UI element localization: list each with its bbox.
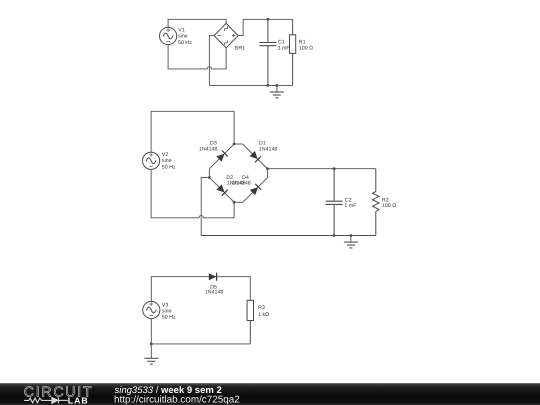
junction bottom vertex (233, 201, 236, 204)
label D1 (259, 141, 278, 153)
wire stub D4 to right vertex (267, 169, 269, 178)
diode D1 (240, 141, 271, 172)
svg-text:1N4148: 1N4148 (205, 290, 224, 296)
svg-text:50 Hz: 50 Hz (178, 40, 192, 46)
diode D2 (206, 174, 237, 205)
footer bar (0, 383, 540, 405)
svg-text:1 mF: 1 mF (278, 46, 291, 52)
capacitor C1 (259, 19, 276, 85)
svg-text:http://circuitlab.com/c725qa2: http://circuitlab.com/c725qa2 (114, 395, 240, 405)
ground 2 (344, 236, 358, 248)
svg-text:R1: R1 (299, 39, 306, 45)
capacitor C2 (326, 169, 343, 236)
wire BR1 plus to top rail (238, 19, 292, 35)
ground 3 (144, 344, 158, 364)
wire left vertex to bottom rail (201, 177, 376, 235)
junction right vertex (266, 167, 269, 170)
svg-text:V3: V3 (162, 302, 169, 308)
voltage source V1 (160, 27, 177, 44)
label V3 (162, 302, 176, 320)
ground 1 (270, 85, 284, 97)
junction left vertex (208, 176, 211, 179)
label R3 (258, 305, 269, 318)
junction C1 bottom (267, 84, 270, 87)
wire BR1 minus to bottom rail (209, 36, 292, 86)
svg-text:100 Ω: 100 Ω (382, 203, 396, 209)
wire V3 top through D5 to R3 top (151, 277, 250, 302)
bridge rectifier BR1 (214, 23, 238, 47)
junction ground 3 (150, 343, 153, 346)
diode D5 (209, 273, 217, 281)
svg-text:C1: C1 (278, 39, 285, 45)
junction ground 1 (276, 84, 279, 87)
svg-text:sine: sine (162, 158, 172, 164)
voltage source V2 (143, 152, 160, 169)
svg-text:1N4148: 1N4148 (199, 146, 218, 152)
svg-text:100 Ω: 100 Ω (299, 46, 313, 52)
junction C2 bottom (333, 234, 336, 237)
svg-text:1N4148: 1N4148 (232, 181, 251, 187)
label R1 (299, 39, 313, 51)
svg-text:V2: V2 (162, 152, 169, 158)
label D3 (199, 141, 218, 153)
svg-text:sine: sine (162, 309, 172, 315)
svg-text:50 Hz: 50 Hz (162, 164, 176, 170)
diode D3 (206, 141, 237, 172)
junction ground 2 (350, 234, 353, 237)
svg-text:BR1: BR1 (235, 45, 245, 51)
svg-text:1 mF: 1 mF (344, 203, 357, 209)
wire V1 bottom to BR1 bottom with hop (168, 45, 226, 69)
wire R3 bottom to V3 bottom (151, 319, 250, 344)
svg-text:V1: V1 (178, 28, 185, 34)
wire V2 bottom to bridge bottom with hop (151, 169, 234, 217)
label V2 (162, 152, 176, 170)
wire V1 top to BR1 top (168, 19, 226, 27)
wire stub top to D1 (234, 143, 243, 145)
wire stub bottom to D4 (234, 201, 243, 203)
wire right vertex to R2 top (268, 168, 376, 170)
resistor R3 (247, 300, 253, 344)
svg-text:sine: sine (178, 34, 188, 40)
junction top rail / C1 (267, 18, 270, 21)
logo resistor-diode glyph (24, 397, 68, 403)
svg-text:R3: R3 (258, 305, 265, 311)
label R2 (382, 197, 396, 209)
wire stub left vertex (208, 169, 210, 178)
wire V2 top to bridge top (151, 111, 234, 152)
label C1 (278, 39, 291, 51)
label C2 (344, 197, 357, 209)
label D2 (226, 175, 245, 187)
resistor R1 (290, 19, 296, 85)
voltage source V3 (143, 301, 160, 318)
node top vertex junction (233, 143, 236, 146)
junction C2 top (333, 167, 336, 170)
svg-text:LAB: LAB (68, 395, 89, 405)
svg-text:1N4148: 1N4148 (259, 146, 278, 152)
svg-text:50 Hz: 50 Hz (162, 315, 176, 321)
svg-text:1 kΩ: 1 kΩ (258, 312, 269, 318)
label D4 (232, 175, 251, 187)
label V1 (178, 28, 192, 46)
diode D4 (240, 174, 271, 205)
resistor R2 (373, 169, 380, 236)
label D5 (205, 285, 224, 296)
